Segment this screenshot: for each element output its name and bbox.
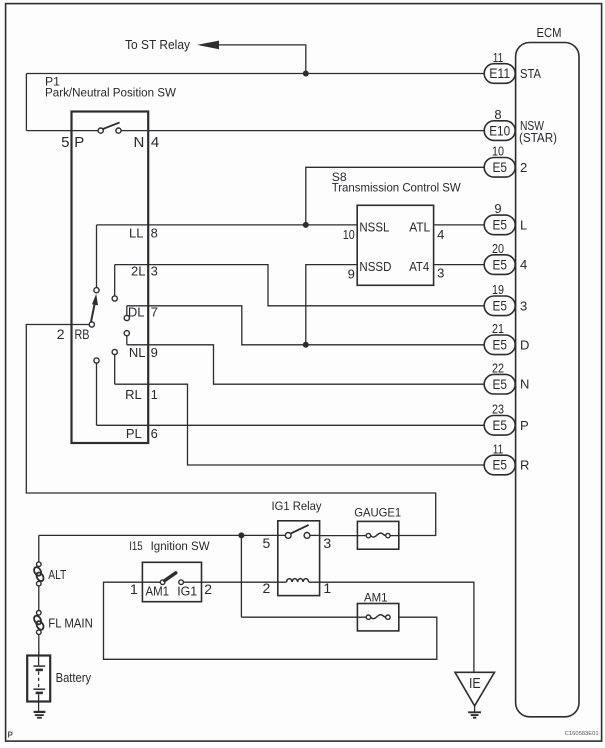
wire ALT to FL MAIN: [38, 586, 40, 611]
connector E5 terminal P pin 23: [484, 402, 528, 436]
svg-text:PL: PL: [126, 426, 142, 441]
svg-text:11: 11: [493, 441, 504, 456]
connector E5 terminal 4 pin 20: [484, 241, 527, 275]
svg-text:E5: E5: [492, 159, 507, 175]
svg-text:21: 21: [492, 321, 504, 336]
connector E5 terminal 3 pin 19: [484, 282, 527, 316]
svg-text:P: P: [8, 731, 14, 740]
svg-text:IG1: IG1: [177, 584, 197, 599]
junction AM1 branch: [238, 532, 244, 538]
svg-text:4: 4: [151, 134, 159, 151]
svg-text:AM1: AM1: [146, 584, 170, 599]
svg-text:AT4: AT4: [409, 259, 429, 274]
contact P/N circles and blade: [98, 122, 121, 133]
svg-text:(STAR): (STAR): [519, 130, 557, 145]
svg-text:19: 19: [492, 282, 504, 297]
wire relay pin5 contact gap: [310, 534, 320, 536]
svg-text:E5: E5: [492, 417, 507, 433]
svg-text:E11: E11: [489, 65, 510, 81]
wire DL to E5-D: [127, 306, 484, 345]
contact AM1 pin 1: [130, 573, 212, 599]
contact DL pin 7: [124, 305, 158, 321]
contact PL pin 6: [94, 358, 158, 441]
contact LL pin 8: [94, 225, 158, 293]
svg-text:E5: E5: [492, 457, 507, 473]
svg-text:5: 5: [61, 134, 69, 151]
svg-text:6: 6: [151, 426, 158, 441]
fusible link ALT: [33, 562, 67, 586]
wire FL MAIN to battery: [38, 634, 40, 655]
svg-text:2: 2: [57, 326, 65, 342]
svg-text:E5: E5: [492, 256, 507, 272]
wire LL row to NSSL: [97, 224, 358, 226]
svg-text:RB: RB: [75, 326, 90, 342]
contact RB pivot pin 2 and selector blade arrow: [57, 294, 98, 342]
svg-text:E10: E10: [489, 122, 510, 138]
connector E5 terminal R pin 11: [484, 441, 529, 475]
wire P/N row to NSW: [26, 130, 484, 132]
svg-text:Transmission Control SW: Transmission Control SW: [332, 181, 461, 195]
relay contact pins 5 and 3: [263, 525, 332, 551]
node To ST Relay arrow: [125, 37, 306, 74]
connector E11 STA pin 11: [484, 50, 541, 84]
svg-text:3: 3: [520, 298, 527, 313]
wire PL to E5-P: [97, 363, 485, 425]
contact NL pin 9: [124, 331, 158, 360]
ECM U1 box: [516, 25, 579, 717]
svg-text:10: 10: [343, 227, 355, 242]
svg-text:To ST Relay: To ST Relay: [125, 37, 190, 52]
connector E5 terminal N pin 22: [484, 361, 529, 395]
svg-text:R: R: [520, 458, 529, 473]
svg-text:AM1: AM1: [364, 591, 388, 605]
wire RB to GAUGE1 fuse: [26, 325, 435, 536]
svg-text:C160583E01: C160583E01: [565, 731, 599, 737]
svg-text:4: 4: [437, 227, 444, 242]
fuse GAUGE1: [320, 505, 402, 549]
ground at battery: [34, 702, 46, 718]
svg-text:NSSL: NSSL: [359, 219, 389, 234]
svg-text:P: P: [520, 418, 529, 433]
svg-text:Battery: Battery: [56, 670, 92, 685]
svg-text:Park/Neutral Position SW: Park/Neutral Position SW: [45, 86, 176, 100]
svg-text:9: 9: [348, 266, 355, 281]
svg-text:I15: I15: [129, 539, 143, 553]
svg-text:11: 11: [493, 50, 504, 65]
wire left bus STA to P: [25, 74, 27, 131]
svg-text:10: 10: [492, 144, 504, 159]
svg-text:L: L: [520, 217, 527, 232]
svg-text:LL: LL: [129, 226, 143, 241]
svg-text:E5: E5: [492, 337, 507, 353]
wire NSSD branch: [306, 265, 357, 345]
connector E5 terminal L pin 9: [484, 201, 527, 235]
svg-text:8: 8: [151, 226, 158, 241]
wire NL to E5-N: [127, 336, 484, 384]
wire AT4 to E5-4: [434, 264, 485, 266]
wire junction to AM1 fuse: [240, 535, 242, 617]
svg-text:N: N: [133, 134, 144, 151]
svg-text:2: 2: [520, 160, 527, 175]
svg-text:7: 7: [151, 305, 158, 320]
svg-text:E5: E5: [492, 376, 507, 392]
svg-text:9: 9: [151, 345, 158, 360]
svg-text:ALT: ALT: [48, 567, 66, 582]
fusible link FL MAIN: [33, 611, 93, 635]
svg-text:RL: RL: [125, 387, 142, 402]
svg-text:D: D: [520, 337, 529, 352]
svg-text:3: 3: [323, 535, 331, 551]
svg-text:E5: E5: [492, 298, 507, 314]
svg-text:Ignition SW: Ignition SW: [151, 539, 210, 553]
svg-text:23: 23: [492, 402, 504, 417]
wire relay coil pin1 to IE ground: [309, 582, 474, 672]
svg-text:NL: NL: [129, 345, 146, 360]
svg-text:IG1 Relay: IG1 Relay: [272, 499, 323, 513]
relay IG1 box: [272, 499, 323, 595]
junction NSSD / D row: [303, 342, 309, 348]
svg-text:22: 22: [492, 361, 504, 376]
wire battery bus to relay pin 5: [39, 534, 285, 536]
svg-text:STA: STA: [520, 66, 541, 81]
svg-text:9: 9: [494, 201, 501, 216]
wire RL to E5-R: [115, 355, 485, 465]
contact RL pin 1: [112, 349, 158, 402]
svg-text:1: 1: [151, 387, 158, 402]
fuse AM1: [241, 591, 398, 631]
contact 2L pin 3: [112, 264, 158, 301]
switch P1 Park/Neutral Position SW box: [45, 75, 176, 444]
switch I15 Ignition SW box: [129, 539, 210, 602]
svg-text:ATL: ATL: [409, 219, 430, 234]
wire AM1 fuse to ignition switch AM1: [104, 582, 437, 659]
wire IG1 to relay coil pin 2: [183, 581, 286, 583]
svg-text:DL: DL: [128, 305, 145, 320]
svg-text:GAUGE1: GAUGE1: [354, 505, 401, 519]
wire ATL to E5-L: [434, 224, 485, 226]
svg-text:ECM: ECM: [537, 25, 562, 40]
svg-text:2L: 2L: [131, 264, 145, 279]
wire E5 terminal 2 branch: [306, 167, 484, 225]
svg-text:P: P: [74, 134, 84, 151]
svg-text:2: 2: [204, 581, 212, 597]
wire STA row: [26, 73, 484, 75]
svg-text:5: 5: [263, 535, 271, 551]
relay coil pins 2 and 1: [263, 579, 332, 596]
svg-text:N: N: [520, 377, 529, 392]
ground IE triangle: [455, 672, 495, 717]
svg-text:IE: IE: [469, 675, 481, 692]
wire battery bus top: [38, 535, 40, 562]
svg-text:FL MAIN: FL MAIN: [48, 616, 93, 631]
box S8 Transmission Control SW: [332, 170, 461, 285]
connector E5 terminal D pin 21: [484, 321, 529, 355]
svg-text:20: 20: [492, 241, 504, 256]
battery: [27, 656, 91, 702]
svg-text:3: 3: [437, 266, 444, 281]
svg-text:4: 4: [520, 257, 527, 272]
svg-text:E5: E5: [492, 217, 507, 233]
svg-text:NSSD: NSSD: [359, 259, 391, 274]
junction E5-2 branch: [303, 222, 309, 228]
svg-text:8: 8: [494, 107, 501, 122]
svg-text:1: 1: [130, 581, 138, 597]
connector E5 terminal 2 pin 10: [484, 144, 527, 178]
connector E10 NSW (STAR) pin 8: [484, 107, 557, 145]
junction ST relay / STA: [303, 71, 309, 77]
wire 2L to E5-3: [115, 265, 485, 306]
svg-text:3: 3: [151, 264, 158, 279]
